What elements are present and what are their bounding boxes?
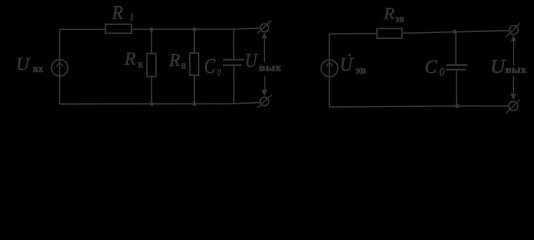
svg-text:эв: эв [395, 14, 404, 25]
svg-text:0: 0 [217, 69, 221, 79]
svg-text:R: R [123, 48, 135, 68]
svg-text:вых: вых [259, 63, 282, 74]
svg-text:R: R [111, 2, 123, 24]
svg-text:C: C [425, 58, 438, 78]
svg-text:н: н [181, 61, 186, 72]
svg-text:i: i [130, 11, 133, 23]
svg-text:вх: вх [33, 64, 44, 75]
svg-text:R: R [168, 50, 180, 70]
svg-text:эв: эв [355, 66, 366, 77]
svg-text:вых: вых [505, 65, 527, 76]
svg-text:U: U [245, 51, 259, 72]
svg-text:C: C [204, 54, 216, 78]
svg-text:U: U [16, 54, 31, 74]
svg-text:к: к [138, 60, 144, 71]
svg-text:U: U [340, 54, 354, 76]
svg-text:R: R [383, 4, 395, 23]
svg-text:0: 0 [439, 65, 444, 79]
